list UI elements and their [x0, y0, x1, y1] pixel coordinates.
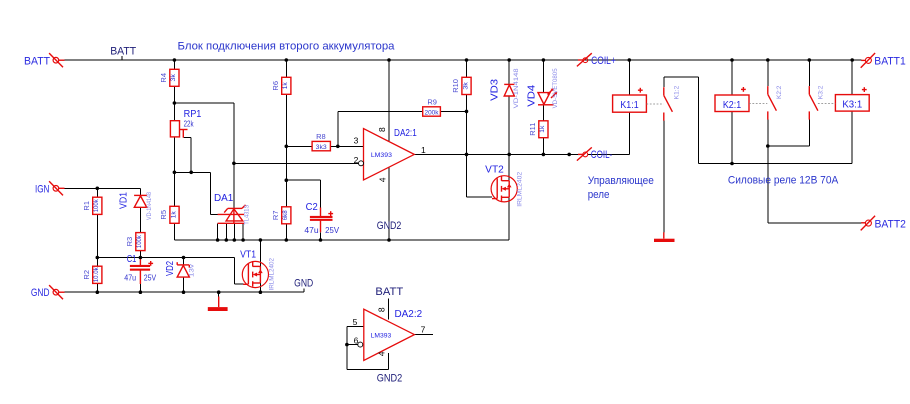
svg-text:3k: 3k — [462, 81, 469, 89]
wire GND2 rail — [174, 197, 509, 240]
relay contact K1:2 — [664, 87, 673, 121]
svg-text:Блок подключения второго аккум: Блок подключения второго аккумулятора — [178, 41, 396, 53]
port label IGN — [35, 183, 50, 195]
label VT2 — [485, 165, 523, 207]
label K3:1 — [842, 99, 862, 110]
annotation control relay — [588, 175, 654, 201]
net label GND — [294, 278, 313, 290]
wire C2 branch — [286, 180, 320, 240]
pin numbers DA2:1 — [354, 127, 426, 182]
svg-text:25V: 25V — [325, 226, 340, 235]
relay coil K2:1 — [715, 87, 749, 112]
capacitor C2 — [310, 211, 333, 221]
junction node R9/R10 — [465, 110, 469, 114]
svg-text:IRLML2402: IRLML2402 — [517, 172, 524, 207]
svg-text:DA2:1: DA2:1 — [394, 128, 417, 139]
diode VD1 — [134, 195, 147, 207]
svg-text:BATT1: BATT1 — [874, 55, 905, 67]
wire relay drive line — [699, 111, 853, 163]
resistor R9 — [423, 107, 441, 116]
svg-text:R8: R8 — [316, 132, 326, 141]
label R11 — [528, 123, 546, 136]
svg-text:R1: R1 — [82, 201, 91, 211]
svg-text:BATT2: BATT2 — [874, 219, 906, 231]
svg-text:VD2: VD2 — [165, 261, 176, 276]
svg-text:Управляющее: Управляющее — [588, 175, 654, 187]
svg-text:IRLML2402: IRLML2402 — [268, 258, 275, 291]
port label BATT2 — [874, 219, 906, 231]
svg-text:R6: R6 — [271, 81, 280, 91]
net label tick BATT — [121, 56, 123, 60]
label R7 — [271, 210, 289, 220]
wire RP1 bottom — [173, 137, 175, 172]
wire BATT2 line — [768, 146, 862, 223]
svg-text:LM393: LM393 — [371, 152, 393, 159]
port GND — [49, 285, 64, 299]
port IGN — [49, 181, 64, 195]
label DA2:2 — [371, 309, 423, 339]
svg-text:200k: 200k — [425, 109, 440, 116]
svg-text:GND2: GND2 — [377, 220, 402, 232]
wire R4 bottom node to x=233.9 — [174, 103, 234, 163]
net label GND2 da2:2 — [377, 373, 403, 385]
link K2 — [749, 103, 767, 105]
resistor R11 — [539, 121, 548, 138]
junction node pin2 — [232, 162, 236, 166]
junction node IGN/R1 — [96, 187, 100, 191]
resistor R6 — [282, 77, 291, 94]
svg-text:R5: R5 — [159, 210, 168, 220]
wire R5 column — [173, 172, 175, 240]
resistor R4 — [170, 69, 179, 86]
junction node K2:1 bottom — [730, 162, 734, 166]
wire op-amp pin2 line — [234, 162, 359, 164]
svg-text:4: 4 — [377, 177, 387, 182]
wire BATT top rail — [64, 59, 861, 61]
svg-text:100k: 100k — [93, 199, 100, 213]
svg-text:6k8: 6k8 — [282, 210, 289, 220]
svg-text:C2: C2 — [306, 202, 319, 213]
wire DA2:2 pin8 — [387, 298, 389, 319]
label K3:2 — [818, 85, 825, 99]
svg-text:K2:2: K2:2 — [776, 85, 783, 99]
wire DA1 cathode column — [233, 163, 235, 208]
svg-text:LM393: LM393 — [371, 332, 392, 339]
svg-text:R7: R7 — [271, 211, 280, 221]
port label BATT — [24, 55, 50, 67]
wire K2:2 column — [767, 60, 769, 146]
svg-text:47u: 47u — [304, 226, 318, 235]
potentiometer RP1 — [170, 121, 187, 138]
svg-text:8: 8 — [377, 127, 387, 132]
svg-text:3: 3 — [354, 136, 359, 146]
op-amp DA2:1 — [359, 129, 415, 180]
wire DA2:1 pin4 — [388, 167, 390, 240]
junction dots GND2 rail — [216, 238, 391, 242]
wire GND line — [64, 289, 304, 293]
svg-text:47u: 47u — [124, 273, 136, 282]
link K3 — [818, 103, 836, 105]
label RP1 — [184, 109, 202, 129]
label R2 — [82, 267, 100, 283]
label R9 — [425, 98, 440, 117]
junction node DA2:2 pin6 — [345, 343, 349, 347]
svg-text:25V: 25V — [144, 273, 157, 282]
svg-text:1: 1 — [421, 145, 426, 155]
svg-text:3k: 3k — [170, 73, 177, 81]
svg-text:BATT: BATT — [375, 286, 403, 298]
wire DA2:1 pin8 — [388, 60, 390, 142]
svg-text:13v: 13v — [188, 263, 195, 277]
link K1 — [646, 103, 663, 105]
wire VD3 column — [508, 60, 510, 154]
wire VT1 drain — [259, 240, 261, 266]
relay coil K1:1 — [613, 88, 647, 112]
wire C1 column — [139, 258, 141, 293]
label VD2 — [165, 261, 196, 277]
wire RP1 top — [173, 103, 175, 121]
port BATT2 — [861, 216, 875, 231]
svg-text:VD3: VD3 — [489, 78, 500, 100]
svg-text:R9: R9 — [427, 98, 437, 107]
svg-text:5: 5 — [353, 317, 358, 327]
relay contact K3:2 — [809, 86, 818, 120]
wire K1:2 top link — [664, 77, 699, 163]
wire R7 column — [285, 180, 287, 240]
svg-text:GND: GND — [294, 278, 313, 290]
label C1 — [124, 254, 156, 283]
wire VD2 column — [183, 258, 185, 293]
label VD4 — [527, 68, 559, 108]
label R1 — [82, 199, 100, 213]
junction nodes pin3 line — [285, 145, 340, 149]
label VD3 — [489, 68, 520, 108]
annotation power relays — [728, 174, 839, 186]
resistor R3 — [136, 233, 145, 251]
svg-text:COIL-: COIL- — [591, 149, 613, 161]
port label COIL+ — [591, 55, 616, 67]
svg-text:VD4: VD4 — [527, 84, 538, 106]
svg-text:1k: 1k — [282, 82, 289, 90]
label K2:1 — [723, 100, 742, 111]
shunt regulator DA1 — [218, 205, 246, 223]
port BATT1 — [861, 53, 875, 68]
junction dots GND line — [96, 290, 263, 294]
wire VT1 source — [259, 283, 261, 292]
wire DA2:1 output / COIL- line — [414, 112, 629, 154]
resistor R5 — [170, 206, 179, 223]
junction node R7/C2 — [285, 178, 289, 182]
wire ground stem — [218, 292, 220, 297]
wire K1:1 top — [628, 60, 630, 95]
wire R6 column — [285, 60, 287, 180]
label R8 — [316, 132, 327, 151]
svg-text:реле: реле — [588, 189, 610, 201]
svg-text:VD1: VD1 — [119, 192, 130, 209]
svg-text:K1:1: K1:1 — [620, 100, 639, 111]
wire R4 column — [173, 60, 175, 103]
resistor R8 — [312, 141, 330, 150]
wire R1 column — [96, 188, 98, 257]
svg-text:R2: R2 — [82, 270, 91, 280]
svg-text:6: 6 — [354, 336, 359, 346]
title — [178, 41, 396, 53]
svg-text:1k: 1k — [539, 125, 546, 133]
label K2:2 — [776, 85, 783, 99]
svg-text:BATT: BATT — [24, 55, 50, 67]
wire DA2:2 pin4 loop to pins 5,6 — [347, 327, 388, 370]
op-amp DA2:2 — [358, 309, 415, 360]
net label BATT — [110, 46, 136, 58]
port label COIL- — [591, 149, 613, 161]
zener VD2 — [177, 262, 189, 277]
wire DA2:2 output stub — [414, 334, 433, 336]
svg-text:3k3: 3k3 — [316, 144, 327, 151]
svg-text:R10: R10 — [451, 79, 460, 93]
svg-text:Силовые реле 12В 70А: Силовые реле 12В 70А — [728, 174, 839, 186]
transistor VT1 — [242, 261, 268, 287]
resistor R2 — [93, 266, 102, 283]
port label BATT1 — [874, 55, 905, 67]
svg-text:K1:2: K1:2 — [673, 85, 680, 99]
port label GND — [31, 287, 50, 299]
svg-text:IGN: IGN — [35, 183, 50, 195]
diode VD3 — [504, 84, 514, 96]
svg-text:BATT: BATT — [110, 46, 136, 58]
capacitor C1 — [130, 261, 153, 271]
junction nodes divider line y=257.5 — [96, 256, 186, 260]
svg-text:R4: R4 — [159, 73, 168, 83]
ground relay — [654, 232, 675, 242]
pin numbers DA2:2 — [353, 307, 426, 356]
svg-text:RP1: RP1 — [184, 109, 202, 120]
label C2 — [304, 202, 339, 235]
svg-text:K3:2: K3:2 — [818, 85, 825, 99]
wire VD1 to R3 — [139, 207, 141, 257]
wire K3:1 top — [851, 60, 853, 95]
wire feedback R9 line — [338, 111, 467, 146]
svg-text:VD-1N4148: VD-1N4148 — [513, 68, 520, 108]
svg-text:TL431S: TL431S — [244, 204, 251, 225]
junction nodes output/COIL- line — [465, 153, 571, 157]
label R4 — [159, 73, 177, 83]
svg-text:10.0k: 10.0k — [93, 267, 100, 283]
label K1:1 — [620, 100, 639, 111]
wire node line y=257.5 — [97, 258, 243, 285]
label DA2:1 — [371, 128, 417, 159]
svg-text:GND: GND — [31, 287, 50, 299]
ground left — [208, 297, 228, 312]
svg-text:VD-SVET0805: VD-SVET0805 — [552, 68, 559, 108]
wire RP1 wiper to node — [183, 137, 191, 172]
wire VD4 R11 column — [542, 60, 544, 154]
LED VD4 — [538, 88, 557, 105]
svg-text:DA1: DA1 — [214, 193, 234, 204]
svg-text:100k: 100k — [136, 234, 143, 248]
label R3 — [125, 234, 143, 248]
net label GND2 — [377, 220, 402, 232]
junction dots top rail — [173, 58, 854, 62]
transistor VT2 — [491, 176, 517, 202]
resistor R7 — [282, 207, 291, 224]
svg-text:VT2: VT2 — [485, 165, 504, 176]
svg-text:K3:1: K3:1 — [842, 99, 862, 110]
wire K3:2 column — [768, 60, 810, 146]
label DA1 — [214, 193, 251, 225]
port COIL+ — [577, 53, 592, 66]
wire IGN line — [64, 188, 140, 195]
svg-text:DA2:2: DA2:2 — [395, 309, 423, 320]
wire gate drop to VT2 — [467, 111, 493, 196]
wire R8 pin3 line — [286, 145, 363, 147]
resistor R1 — [93, 197, 102, 214]
svg-text:VT1: VT1 — [240, 250, 256, 261]
wire K1:2 bottom to ground — [663, 121, 665, 233]
resistor R10 — [462, 77, 471, 94]
svg-text:22k: 22k — [184, 119, 195, 128]
port BATT — [49, 53, 64, 67]
label R5 — [159, 210, 177, 220]
wire VT2 drain — [508, 154, 510, 180]
label VD1 — [119, 192, 153, 220]
svg-text:GND2: GND2 — [377, 373, 403, 385]
junction node R4/RP1 — [173, 101, 177, 105]
wire R2 column — [96, 258, 98, 293]
label K1:2 — [673, 85, 680, 99]
wire R10 column — [466, 60, 468, 111]
svg-text:1k: 1k — [170, 211, 177, 219]
relay coil K3:1 — [835, 87, 869, 111]
svg-text:K2:1: K2:1 — [723, 100, 742, 111]
svg-text:R11: R11 — [528, 123, 537, 136]
relay contact K2:2 — [768, 86, 777, 120]
wire node row y=172.3 — [174, 172, 218, 214]
svg-text:2: 2 — [354, 155, 359, 165]
junction node contacts common — [766, 144, 770, 148]
svg-text:R3: R3 — [125, 237, 134, 247]
wire DA1 pins — [218, 223, 244, 240]
svg-text:7: 7 — [421, 325, 426, 335]
svg-text:8: 8 — [377, 307, 387, 312]
svg-text:VD-1N4148: VD-1N4148 — [146, 192, 153, 220]
wire K2:1 column — [731, 60, 733, 164]
label R10 — [451, 79, 469, 93]
label VT1 — [240, 250, 275, 291]
svg-text:C1: C1 — [127, 254, 137, 265]
net label BATT da2:2 — [375, 286, 403, 298]
svg-text:4: 4 — [377, 351, 387, 356]
port COIL- — [577, 147, 592, 160]
junction nodes RP1 bottom row — [173, 171, 193, 175]
svg-text:COIL+: COIL+ — [591, 55, 616, 67]
label R6 — [271, 81, 289, 91]
